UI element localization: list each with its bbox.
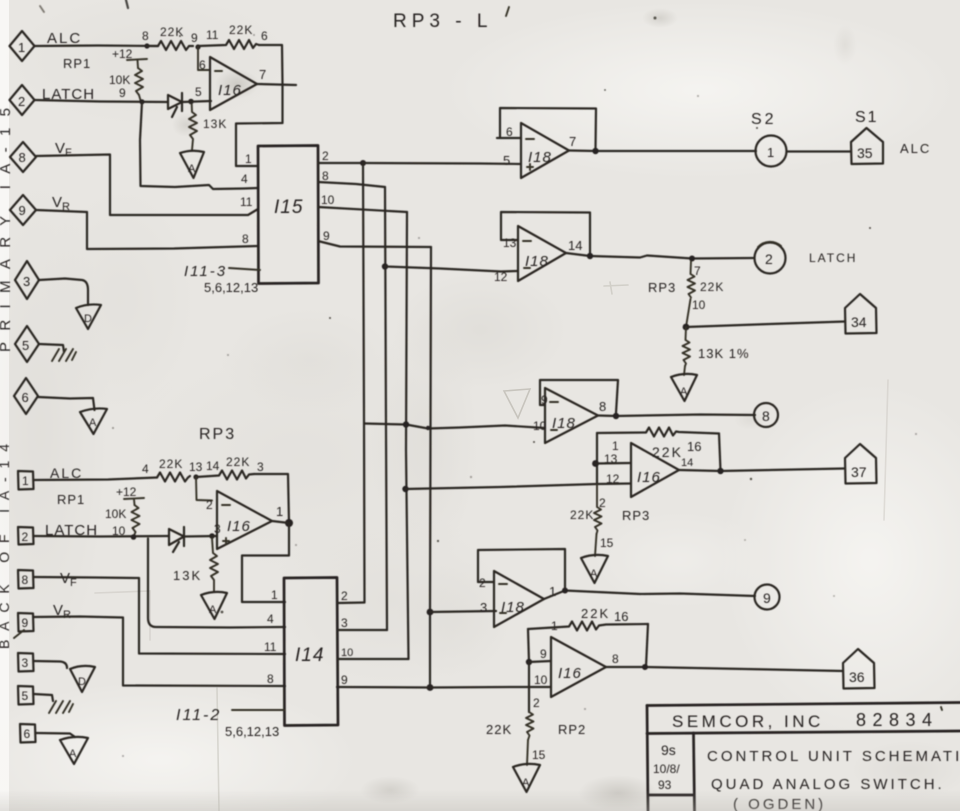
- svg-text:10: 10: [341, 647, 353, 659]
- I15 pin 10 wire: [318, 207, 407, 212]
- wire 22K to gnd: [595, 534, 597, 556]
- svg-text:+12: +12: [116, 485, 137, 499]
- svg-text:D: D: [78, 676, 86, 688]
- svg-text:RP1: RP1: [57, 492, 85, 507]
- svg-text:A: A: [209, 604, 217, 616]
- svg-text:22K: 22K: [486, 722, 512, 737]
- svg-text:7: 7: [569, 134, 576, 149]
- svg-text:8: 8: [142, 29, 149, 43]
- svg-text:9: 9: [191, 31, 198, 45]
- wire VR to I15 pin 8: [36, 210, 258, 249]
- svg-text:5: 5: [22, 689, 29, 703]
- ground A (RP2): [513, 764, 540, 792]
- svg-text:22K: 22K: [652, 444, 683, 460]
- op-amp I16b (lower): [206, 491, 283, 549]
- svg-text:I16: I16: [227, 518, 251, 535]
- svg-text:2: 2: [22, 530, 29, 544]
- ground A (13K 1%): [671, 374, 697, 401]
- svg-text:4: 4: [142, 462, 149, 476]
- connector P2 square: [18, 527, 34, 545]
- svg-text:11: 11: [240, 195, 253, 209]
- svg-text:SEMCOR, INC: SEMCOR, INC: [672, 712, 824, 731]
- svg-text:S1: S1: [855, 109, 879, 126]
- wire 22K to junction: [686, 299, 691, 327]
- svg-text:3: 3: [23, 274, 30, 289]
- svg-text:10K: 10K: [105, 507, 126, 521]
- I18b output wire: [566, 253, 754, 259]
- I18a output wire: [569, 149, 756, 152]
- connector pin 35 pentagon: [851, 128, 883, 164]
- svg-text:82834: 82834: [856, 710, 939, 730]
- diode CR1: [168, 93, 182, 117]
- junction I16d out: [642, 664, 648, 670]
- wire P1 to RP3: [34, 478, 158, 481]
- pin 13 node: [193, 474, 198, 479]
- svg-text:10: 10: [692, 298, 706, 312]
- connector pin 37 pentagon: [845, 444, 877, 484]
- junction pin13: [592, 460, 599, 467]
- I15 pin 8 wire: [318, 182, 385, 187]
- svg-text:22K: 22K: [226, 455, 250, 469]
- connector P5 square: [18, 686, 34, 705]
- svg-text:RP3 - L: RP3 - L: [393, 11, 492, 32]
- bus wire 2 vertical: [385, 187, 387, 630]
- wire I15 pin2 to I18a pin5: [363, 163, 521, 164]
- svg-text:RP1: RP1: [63, 56, 91, 71]
- wire output to I15 pin 1: [236, 84, 283, 166]
- wire bus4 to I18d pin3: [427, 609, 434, 616]
- junction output (lower): [285, 519, 293, 527]
- svg-text:16: 16: [687, 439, 701, 454]
- wire P6 to A gnd: [36, 733, 76, 737]
- svg-text:12: 12: [494, 270, 508, 284]
- svg-text:5: 5: [22, 338, 29, 353]
- svg-text:8: 8: [267, 672, 274, 686]
- svg-text:9: 9: [763, 590, 771, 606]
- svg-text:4: 4: [267, 612, 274, 626]
- svg-text:I16: I16: [218, 82, 242, 99]
- resistor 22K RP3 1-16: [597, 428, 719, 461]
- resistor 22K RP3 14-3: [196, 455, 254, 480]
- I14 pin 2 wire to bus1: [338, 601, 365, 604]
- ghost erased marks: [604, 282, 628, 294]
- svg-text:10: 10: [321, 193, 335, 207]
- svg-text:10: 10: [534, 673, 548, 687]
- svg-text:15: 15: [600, 536, 614, 550]
- I16c feedback verticals: [597, 433, 721, 484]
- svg-text:36: 36: [849, 669, 865, 685]
- svg-text:6: 6: [22, 390, 29, 405]
- connector pin 34 pentagon: [845, 294, 877, 334]
- wire LATCH junction to I15 pin 4: [140, 102, 258, 189]
- switch node circle 9: [755, 585, 780, 610]
- resistor 10K (RP1): [109, 68, 143, 95]
- I16c output wire: [679, 469, 844, 472]
- svg-text:8: 8: [22, 573, 29, 587]
- junction pin5: [188, 99, 194, 105]
- svg-text:I16: I16: [558, 665, 582, 682]
- svg-text:9: 9: [323, 229, 330, 243]
- resistor 22K RP3 7-10: [688, 261, 725, 298]
- resistor 22K RP2 2-15: [486, 712, 586, 740]
- svg-text:A: A: [590, 568, 598, 580]
- connector P3 square: [18, 653, 34, 672]
- svg-text:9: 9: [19, 203, 26, 218]
- junction I18c out: [613, 413, 619, 419]
- bus wire 3 vertical: [406, 212, 409, 659]
- svg-text:I15: I15: [274, 197, 303, 218]
- paper specks: [112, 17, 917, 758]
- I14 pin 10 wire to bus3: [338, 658, 409, 660]
- svg-text:22K: 22K: [570, 508, 594, 522]
- svg-text:11: 11: [264, 640, 277, 654]
- wire junction to pin34: [686, 322, 845, 328]
- svg-text:22K: 22K: [700, 280, 724, 294]
- svg-text:CONTROL UNIT SCHEMATIC: CONTROL UNIT SCHEMATIC: [707, 748, 960, 765]
- svg-text:13: 13: [503, 236, 517, 250]
- svg-text:RP2: RP2: [558, 722, 586, 737]
- connector P1 square: [18, 471, 34, 490]
- wire P2 to diode (lower): [34, 535, 170, 538]
- +12 supply tap: [112, 47, 147, 68]
- resistor 13K: [189, 104, 227, 150]
- wire bus2 to I18b pin12: [382, 263, 388, 269]
- pin 13 stub: [596, 462, 632, 465]
- junction blob: [426, 426, 430, 430]
- I16d output wire: [606, 667, 843, 671]
- junction node 8: [144, 43, 149, 48]
- svg-text:3: 3: [341, 616, 348, 630]
- svg-text:2: 2: [533, 696, 540, 710]
- op-amp I16d: [534, 637, 619, 697]
- resistor 22K RP2 1-16: [528, 606, 648, 631]
- svg-text:10/8/: 10/8/: [653, 762, 680, 776]
- svg-text:2: 2: [341, 589, 348, 603]
- connector P6 square: [20, 724, 36, 743]
- svg-text:9: 9: [540, 647, 547, 661]
- svg-text:22K: 22K: [159, 457, 183, 471]
- wire node13 down to op-amp pin 2: [196, 477, 212, 501]
- op-amp I18d: [479, 571, 556, 627]
- IC I15: [258, 146, 319, 284]
- op-amp I18b: [494, 226, 582, 284]
- junction I18a out: [592, 148, 598, 154]
- svg-text:6: 6: [261, 29, 268, 43]
- svg-text:8: 8: [242, 232, 249, 246]
- wire VR to I14 pin 8: [34, 617, 286, 687]
- svg-text:D: D: [84, 313, 92, 325]
- switch node circle 8: [754, 403, 778, 427]
- wire I14 pin9 to I16d pin10: [337, 686, 551, 689]
- svg-text:15: 15: [532, 748, 546, 762]
- resistor 22K RP3 2-15: [570, 484, 650, 534]
- wire P5 to chassis gnd: [34, 694, 54, 701]
- resistor 22K RP3 4-13: [157, 457, 190, 482]
- ground A (upper J6): [80, 408, 107, 434]
- wire feedback to output: [259, 45, 283, 84]
- op-amp I16c: [604, 443, 693, 497]
- svg-text:22K: 22K: [229, 23, 253, 37]
- svg-text:I18: I18: [528, 149, 552, 166]
- junction I18d out: [562, 588, 568, 594]
- svg-text:13K 1%: 13K 1%: [698, 346, 750, 361]
- svg-text:35: 35: [857, 145, 873, 161]
- output loop to I14 pin 1: [242, 521, 289, 602]
- bus wire 4 vertical: [430, 247, 431, 688]
- svg-text:2: 2: [322, 149, 329, 163]
- wire J6 to A gnd: [38, 397, 95, 410]
- connector J9 diamond VR: [10, 195, 36, 225]
- svg-text:ALC: ALC: [47, 30, 82, 47]
- pin 9 stub: [529, 661, 551, 662]
- wire circle1 to pin35: [787, 150, 852, 152]
- svg-text:RP3: RP3: [622, 508, 650, 523]
- svg-text:10K: 10K: [109, 73, 130, 87]
- svg-text:14: 14: [206, 459, 220, 473]
- junction RP3 tap: [689, 256, 695, 262]
- svg-text:3: 3: [22, 656, 29, 670]
- svg-text:9: 9: [22, 616, 29, 630]
- resistor 22K (RP3 8-9): [147, 25, 193, 50]
- svg-text:RP3: RP3: [199, 426, 236, 443]
- svg-text:37: 37: [851, 464, 867, 480]
- wire bus to I18c pin10: [365, 424, 546, 429]
- op-amp I18c: [533, 388, 606, 443]
- I16d left vertical to RP2: [528, 662, 530, 712]
- svg-text:34: 34: [851, 314, 867, 330]
- I18c feedback box: [540, 380, 618, 413]
- ground D (lower): [70, 666, 95, 692]
- wire LATCH junction to I14 pin 4: [148, 539, 285, 628]
- svg-text:2: 2: [18, 94, 25, 109]
- svg-text:I16: I16: [637, 469, 661, 486]
- svg-text:13K: 13K: [173, 568, 202, 583]
- junction bus4 bottom: [427, 684, 434, 691]
- svg-text:3: 3: [480, 600, 487, 615]
- wire diode to op-amp pin 5: [182, 101, 211, 102]
- svg-text:A: A: [522, 777, 530, 789]
- wire VF to I14 pin 11: [34, 577, 286, 654]
- ground A (RP3b): [581, 555, 608, 583]
- svg-text:3: 3: [257, 460, 264, 474]
- ground A (P6): [60, 737, 88, 764]
- svg-text:5,6,12,13: 5,6,12,13: [204, 280, 258, 295]
- svg-text:93: 93: [658, 778, 672, 792]
- op-amp U-I16a: [195, 57, 266, 110]
- connector P9 square: [14, 613, 34, 638]
- faint paper crease: [217, 688, 219, 811]
- I18d output wire: [544, 591, 755, 600]
- svg-text:22K: 22K: [581, 606, 610, 621]
- bus wire 1 vertical: [363, 163, 365, 602]
- junction dot latch (lower): [131, 534, 137, 540]
- chassis ground hatch (lower): [49, 701, 73, 713]
- op-amp I18a (top): [503, 123, 576, 178]
- wire J2 to diode: [35, 100, 169, 102]
- svg-text:8: 8: [19, 150, 26, 165]
- connector J1 diamond: [10, 31, 35, 61]
- svg-text:1: 1: [271, 588, 278, 602]
- svg-text:1: 1: [22, 474, 29, 488]
- wire node9 down to op-amp pin 6: [198, 47, 210, 70]
- I15 pin 9 wire: [318, 241, 431, 247]
- svg-text:9: 9: [119, 86, 126, 100]
- svg-text:13: 13: [189, 460, 203, 474]
- resistor 22K (RP3 11-6): [198, 23, 259, 49]
- ghost erased triangle near I18: [504, 389, 530, 418]
- wire VF to I15 pin 11: [36, 155, 258, 216]
- svg-text:A: A: [69, 748, 77, 760]
- svg-text:5: 5: [195, 85, 202, 99]
- junction on bus3: [403, 421, 409, 427]
- svg-text:9: 9: [341, 673, 348, 687]
- wire J3 to D gnd: [39, 279, 88, 306]
- I18d feedback box: [478, 549, 565, 590]
- wire feedback to output (lower): [254, 474, 289, 523]
- wire 13K to gnd: [684, 366, 685, 375]
- svg-text:A: A: [89, 417, 97, 429]
- title block frame: [647, 703, 960, 811]
- wire J1 to RP1: [35, 44, 159, 47]
- resistor 13K 1%: [683, 327, 750, 366]
- switch node circle 1: [756, 136, 787, 167]
- junction I16c out: [717, 468, 723, 474]
- junction pin3 (lower): [209, 533, 215, 539]
- junction bus1 top: [360, 160, 366, 166]
- wire bus3 to I16c pin12: [402, 486, 408, 492]
- resistor 13K (lower): [173, 538, 218, 592]
- svg-text:1: 1: [18, 40, 25, 55]
- junction 13K/34: [683, 324, 690, 331]
- I18c output wire: [598, 415, 755, 417]
- pin 9 node: [195, 44, 200, 49]
- svg-text:22K: 22K: [160, 25, 184, 39]
- svg-text:ALC: ALC: [900, 141, 931, 156]
- svg-text:10: 10: [533, 419, 547, 433]
- wire P3 to D gnd: [34, 661, 68, 668]
- connector J2 diamond: [10, 85, 35, 115]
- output wire pin 7: [257, 84, 296, 85]
- chassis ground hatch (upper): [52, 349, 76, 361]
- connector J5 diamond: [15, 326, 39, 362]
- svg-text:I11-2: I11-2: [176, 707, 221, 724]
- svg-text:8: 8: [762, 408, 770, 424]
- svg-text:12: 12: [606, 472, 620, 486]
- svg-text:+12: +12: [112, 47, 133, 61]
- junction dot latch: [139, 99, 144, 104]
- svg-text:8: 8: [322, 169, 329, 183]
- svg-text:1: 1: [551, 619, 558, 633]
- svg-text:I14: I14: [295, 645, 324, 666]
- ground A (13K): [180, 151, 204, 178]
- svg-text:1: 1: [245, 152, 252, 166]
- svg-text:A: A: [188, 163, 196, 175]
- I18b feedback box: [501, 212, 590, 256]
- svg-text:4: 4: [241, 172, 248, 186]
- svg-text:6: 6: [199, 58, 206, 72]
- svg-text:1: 1: [767, 145, 774, 160]
- svg-text:5,6,12,13: 5,6,12,13: [225, 724, 279, 739]
- svg-text:A: A: [680, 386, 688, 398]
- svg-text:8: 8: [612, 652, 619, 666]
- connector J6 diamond: [14, 378, 38, 414]
- svg-text:8: 8: [599, 399, 606, 414]
- junction pin9: [526, 659, 532, 665]
- I14 pin 3 wire to bus2: [338, 629, 387, 631]
- svg-text:6: 6: [24, 727, 31, 741]
- connector pin 36 pentagon: [843, 649, 875, 689]
- svg-text:1: 1: [276, 504, 283, 519]
- wire RP2 to gnd: [527, 740, 528, 765]
- wire diode to op-amp pin 3: [184, 535, 217, 538]
- junction I18b out: [587, 253, 593, 259]
- svg-text:14: 14: [568, 238, 582, 253]
- I16d feedback verticals: [528, 624, 648, 667]
- ground A (13K lower): [201, 592, 227, 619]
- svg-text:S2: S2: [751, 111, 777, 128]
- connector J3 diamond: [15, 261, 39, 299]
- ground D (upper): [76, 304, 101, 329]
- switch node circle 2: [755, 242, 786, 274]
- svg-text:5: 5: [503, 153, 510, 168]
- I15 pin 2 wire: [318, 162, 363, 164]
- svg-text:2: 2: [206, 498, 213, 512]
- svg-text:16: 16: [614, 609, 628, 624]
- wire J5 to chassis gnd: [39, 344, 64, 352]
- I18a feedback box: [497, 108, 596, 150]
- svg-text:RP3: RP3: [648, 280, 676, 295]
- +12 supply tap (lower): [116, 485, 144, 505]
- svg-text:2: 2: [765, 251, 773, 267]
- svg-text:11: 11: [206, 28, 219, 42]
- connector P8 square: [18, 570, 34, 589]
- svg-text:I11-3: I11-3: [184, 263, 227, 280]
- wire 10K to LATCH junction: [139, 95, 141, 102]
- svg-text:LATCH: LATCH: [809, 251, 857, 265]
- resistor 10K (lower): [105, 505, 140, 537]
- svg-text:13K: 13K: [203, 117, 227, 131]
- svg-text:7: 7: [259, 67, 266, 82]
- svg-text:1: 1: [612, 439, 619, 453]
- IC I14: [284, 578, 338, 726]
- svg-text:9s: 9s: [661, 742, 676, 758]
- connector J8 diamond VF: [10, 142, 36, 172]
- diode CR2: [169, 527, 184, 552]
